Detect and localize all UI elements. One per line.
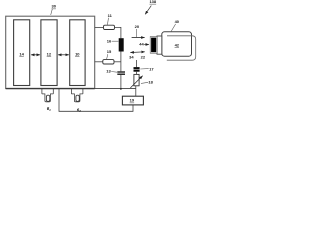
figure number 138 <box>145 0 157 14</box>
wire 18 to box 19 <box>135 86 137 96</box>
svg-text:19: 19 <box>130 98 135 103</box>
cell 12 <box>41 20 57 86</box>
svg-text:40: 40 <box>175 19 180 24</box>
wire 17 to 18 <box>135 72 137 75</box>
svg-text:138: 138 <box>149 0 156 4</box>
svg-text:10: 10 <box>75 51 80 56</box>
svg-text:15: 15 <box>107 49 112 54</box>
svg-text:22: 22 <box>141 55 146 60</box>
svg-text:20: 20 <box>135 24 140 29</box>
arrow 20 <box>132 37 145 39</box>
connector 44 <box>150 37 157 54</box>
arrow 12-10 <box>58 54 69 56</box>
resistor 15 <box>103 60 114 64</box>
wire element 16 to capacitor 13 <box>120 52 122 72</box>
svg-text:16: 16 <box>107 38 112 43</box>
svg-text:62: 62 <box>77 107 81 113</box>
control box 19 <box>122 96 143 105</box>
label 30 <box>51 4 57 15</box>
svg-text:12: 12 <box>47 51 52 56</box>
variable resistor 18 <box>130 74 142 88</box>
double arrow 34 22 <box>130 51 144 54</box>
wire housing to bottom rail <box>59 89 133 112</box>
motor rear outline <box>167 36 196 60</box>
wire resistor 11 to element 16 <box>115 27 121 38</box>
svg-text:14: 14 <box>19 51 24 56</box>
svg-text:30: 30 <box>51 4 56 9</box>
svg-text:13: 13 <box>106 68 111 73</box>
housing box 30 <box>6 16 95 88</box>
svg-text:61: 61 <box>47 106 51 112</box>
wire to resistor 11 <box>95 26 104 28</box>
capacitor 13 <box>117 72 125 74</box>
svg-text:18: 18 <box>148 79 153 84</box>
wire to resistor 15 <box>95 61 103 63</box>
svg-text:42: 42 <box>175 43 180 48</box>
resistor 11 <box>104 25 115 29</box>
svg-text:44: 44 <box>139 42 144 47</box>
wire housing bottom corner to node <box>95 88 136 90</box>
motor body 42 <box>162 32 192 56</box>
lamp 6_1 <box>42 89 53 102</box>
motor flange <box>157 36 162 54</box>
wire capacitor 13 down <box>120 75 122 89</box>
sensor 17 <box>134 67 140 72</box>
housing bottom edge <box>6 88 95 90</box>
arrow 14-12 <box>31 54 40 56</box>
wire resistor 15 to rail <box>114 61 121 63</box>
wire to sensor 17 <box>135 60 137 67</box>
svg-text:17: 17 <box>149 66 154 71</box>
svg-text:34: 34 <box>129 55 134 60</box>
lamp 6_2 <box>71 89 83 102</box>
cell 10 <box>70 20 85 86</box>
junction <box>120 88 122 90</box>
cell 14 <box>14 20 30 86</box>
heater element 16 <box>119 38 124 51</box>
